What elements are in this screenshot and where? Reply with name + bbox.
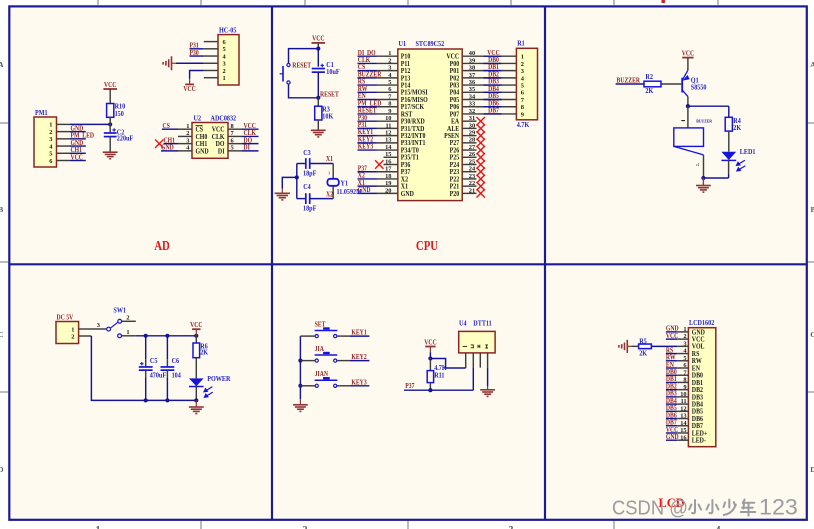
svg-text:CPU: CPU [416, 238, 438, 253]
connector PM1 pin stubs [57, 123, 71, 125]
wire VCC down to junction [429, 347, 431, 353]
svg-text:3: 3 [97, 322, 100, 329]
wire R10 to junction [109, 117, 111, 124]
resistor R10 [107, 104, 114, 118]
wire VCC junction to R6 [195, 336, 197, 343]
svg-text:DI: DI [218, 148, 225, 155]
wire crystal top row X1 [297, 163, 305, 165]
svg-text:17: 17 [385, 166, 392, 173]
svg-text:LCD1602: LCD1602 [689, 320, 714, 327]
U4 internal pin marks [463, 345, 488, 348]
svg-text:18pF: 18pF [303, 205, 316, 212]
junction P37/R11 [428, 388, 432, 392]
power port VCC above reset circuit [312, 42, 326, 44]
svg-text:10K: 10K [322, 113, 334, 120]
svg-text:D: D [810, 465, 814, 474]
junction key rail row2 [298, 359, 302, 363]
no-connect X on U2 pin3 [155, 139, 163, 147]
transistor Q1 S8550 (PNP) [682, 70, 689, 96]
wire bottom rail to LED1 [703, 177, 728, 179]
svg-text:3: 3 [49, 136, 52, 143]
crystal Y1 [332, 164, 334, 179]
wire net CS (U2 pin1) [162, 128, 178, 130]
svg-text:4.7K: 4.7K [434, 365, 447, 372]
svg-text:13: 13 [680, 413, 686, 420]
wire R3 to ground [317, 120, 319, 130]
svg-text:GND: GND [666, 434, 679, 442]
power port VCC above Q1 [682, 57, 693, 59]
svg-text:VCC: VCC [666, 332, 679, 340]
svg-text:ADC0832: ADC0832 [211, 115, 237, 122]
overline on internal CS [196, 125, 203, 127]
DC 5V pin stubs [79, 328, 92, 330]
push button SET [315, 329, 338, 338]
wire R2 to Q1 base [661, 83, 682, 85]
switch SW1 [107, 319, 122, 337]
wire junction to ground [702, 178, 704, 186]
wire net GND (U2 pin4) [161, 150, 178, 152]
power port VCC below HC-05 (down) [185, 83, 194, 85]
svg-text:P30: P30 [190, 49, 199, 57]
connector PM1 [34, 117, 57, 167]
svg-text:5: 5 [388, 79, 391, 86]
svg-text:1: 1 [126, 329, 129, 336]
IC U4 DTT11 [459, 331, 495, 353]
wire R4 branch down [728, 106, 730, 117]
svg-text:KEY3: KEY3 [351, 379, 366, 387]
svg-text:8: 8 [683, 377, 686, 384]
svg-text:13: 13 [385, 137, 391, 144]
SW1 pin2 stub [122, 320, 136, 322]
svg-text:9: 9 [521, 111, 524, 118]
wire key column rail [299, 336, 301, 399]
svg-text:B: B [0, 205, 3, 214]
svg-text:11.0592M: 11.0592M [337, 189, 363, 196]
U2 right pin stubs [228, 128, 242, 130]
junction C5 top [144, 334, 148, 338]
svg-text:2K: 2K [645, 88, 654, 95]
svg-text:JIAN: JIAN [315, 371, 329, 379]
wire button JIA to net KEY2 [337, 360, 350, 362]
svg-text:15: 15 [385, 151, 391, 158]
wire Q1 collector down [687, 97, 689, 107]
svg-text:10uF: 10uF [326, 69, 339, 76]
svg-text:R11: R11 [434, 372, 444, 379]
resistor R4 [725, 117, 732, 131]
junction C6 bottom [165, 398, 169, 402]
buzzer slant lead [674, 146, 704, 155]
svg-text:C5: C5 [150, 358, 158, 365]
wire junction to crystal ground [282, 177, 297, 188]
svg-text:470uF: 470uF [150, 372, 166, 379]
svg-text:HC-05: HC-05 [219, 27, 237, 34]
svg-text:2: 2 [303, 525, 308, 529]
U1 left pin stubs and wires [358, 55, 377, 57]
svg-text:12: 12 [680, 405, 686, 412]
svg-text:JIA: JIA [315, 346, 325, 354]
wire R6 to POWER LED [195, 358, 197, 379]
wire rail to button JIAN [300, 385, 315, 387]
wire HC-05 pin2 to VCC [190, 70, 204, 78]
svg-text:1: 1 [96, 525, 101, 529]
IC U2 ADC0832 [192, 123, 228, 159]
svg-text:P37: P37 [405, 383, 415, 391]
wire net VCC (U2 pin8) [242, 128, 259, 130]
svg-text:RESET: RESET [320, 91, 339, 99]
power port VCC at U4 [425, 346, 435, 348]
wire button JIAN to net KEY3 [337, 385, 350, 387]
wire crystal bottom row X2 [297, 198, 305, 200]
svg-text:VCC: VCC [183, 86, 196, 94]
capacitor C4 [305, 193, 307, 204]
svg-text:2: 2 [126, 314, 129, 321]
svg-text:LED1: LED1 [740, 149, 756, 156]
svg-text:VCC: VCC [312, 35, 325, 43]
wire power rail top [136, 335, 197, 337]
wire BUZZER net to R2 [616, 83, 644, 85]
svg-text:16: 16 [385, 158, 392, 165]
wire PM1 pin6 net VCC [70, 160, 86, 162]
svg-text:SW1: SW1 [113, 307, 126, 314]
SW1 pin1 stub [122, 335, 136, 337]
svg-text:STC89C52: STC89C52 [416, 41, 445, 48]
U4 pin stubs [465, 353, 467, 368]
junction VCC/R6 [194, 334, 198, 338]
power port VCC power rail [192, 328, 200, 330]
junction C5 bottom [144, 398, 148, 402]
svg-text:X1: X1 [326, 156, 333, 164]
ground at R5 (rotated) [619, 340, 627, 353]
buzzer LS1 body [674, 128, 704, 146]
ground below buzzer [696, 186, 711, 193]
junction VCC/R11 [428, 356, 432, 360]
svg-text:14: 14 [680, 420, 687, 427]
resistor R3 [317, 98, 319, 106]
svg-text:C6: C6 [172, 358, 180, 365]
capacitor C5 [145, 336, 147, 360]
svg-text:C: C [810, 330, 814, 339]
junction key rail row3 [298, 384, 302, 388]
svg-text:2: 2 [683, 333, 686, 340]
svg-text:3: 3 [223, 61, 226, 68]
junction crystal left [295, 175, 299, 179]
U1 right unconnected stubs with X marks (pins 31-21) [462, 120, 476, 122]
push button JIA [315, 353, 338, 362]
capacitor C6 [166, 336, 168, 360]
svg-text:C4: C4 [303, 184, 311, 191]
svg-text:1: 1 [186, 123, 189, 130]
junction C6 top [165, 334, 169, 338]
svg-text:AD: AD [154, 238, 170, 253]
svg-text:RESET: RESET [292, 62, 311, 70]
wire VCC junction to U4 pin1 [430, 359, 465, 369]
wire net CLK (U2 pin7) [242, 135, 259, 137]
svg-text:10: 10 [385, 115, 391, 122]
svg-text:2K: 2K [200, 349, 209, 356]
wire net P31 (HC-05 pin5) [190, 48, 204, 50]
wire crystal left branch [296, 164, 298, 199]
buzzer minus sign [681, 120, 685, 122]
svg-text:2: 2 [223, 68, 226, 75]
wire to power ground [195, 400, 197, 407]
svg-text:R2: R2 [645, 74, 653, 81]
svg-text:DB7: DB7 [488, 107, 500, 115]
resistor R6 [193, 343, 200, 358]
capacitor C1 [317, 49, 319, 67]
svg-text:3: 3 [388, 65, 391, 72]
junction at R10/C2 node [108, 122, 112, 126]
svg-text:1: 1 [71, 326, 74, 333]
wire collector node to R4 branch [688, 105, 729, 107]
wire U4 pin4 to ground [487, 368, 489, 387]
svg-text:19: 19 [385, 180, 391, 187]
svg-text:U1: U1 [399, 41, 407, 48]
svg-text:16: 16 [680, 434, 687, 441]
svg-text:104: 104 [172, 372, 182, 379]
svg-text:15: 15 [680, 427, 686, 434]
svg-text:14: 14 [385, 144, 392, 151]
svg-text:KEY1: KEY1 [351, 329, 366, 337]
svg-text:3: 3 [186, 137, 189, 144]
connector DC 5V [56, 322, 79, 344]
svg-text:18pF: 18pF [303, 170, 316, 177]
junction collector node [686, 104, 690, 108]
svg-text:123: 123 [759, 494, 798, 519]
svg-text:C: C [0, 330, 4, 339]
svg-text:2: 2 [388, 57, 391, 64]
svg-text:VCC: VCC [190, 322, 203, 330]
LED LED1 [721, 152, 745, 171]
svg-text:3: 3 [509, 525, 514, 529]
ground power input [189, 407, 204, 414]
svg-text:11: 11 [385, 122, 391, 129]
push button RESET switch [280, 63, 291, 84]
svg-text:R5: R5 [639, 338, 647, 345]
wire rail to button SET [300, 335, 315, 337]
wire buzzer to bottom junction [703, 155, 705, 178]
svg-text:S8550: S8550 [691, 84, 707, 91]
wire collector node to buzzer [687, 106, 689, 128]
svg-text:U2: U2 [194, 115, 202, 122]
svg-text:10: 10 [680, 391, 686, 398]
no-connect X on U1 pin16 [375, 160, 383, 168]
svg-text:DTT11: DTT11 [473, 320, 491, 327]
junction buzzer bottom [701, 176, 705, 180]
svg-text:20: 20 [385, 187, 391, 194]
svg-text:GND: GND [401, 190, 414, 197]
wire bottom return rail [91, 336, 196, 400]
connector LCD1602 [688, 328, 715, 447]
svg-text:1: 1 [521, 54, 524, 61]
svg-text:2K: 2K [733, 125, 742, 132]
IC U1 STC89C52 [398, 49, 462, 201]
svg-text:VCC: VCC [71, 154, 84, 162]
ground below R3 [311, 130, 326, 137]
svg-text:5: 5 [683, 355, 686, 362]
svg-text:2: 2 [49, 129, 52, 136]
svg-text:DI: DI [244, 144, 251, 152]
svg-text:P20: P20 [450, 190, 460, 197]
svg-text:2: 2 [521, 61, 524, 68]
LCD net wires and labels [666, 331, 677, 333]
svg-text:1: 1 [223, 75, 226, 82]
svg-text:A: A [0, 60, 4, 69]
svg-text:DC 5V: DC 5V [57, 314, 74, 322]
resistor R11 [429, 359, 431, 371]
wire net P37 [404, 389, 473, 391]
junction reset bottom / net RESET [316, 96, 320, 100]
svg-text:5: 5 [49, 151, 52, 158]
wire PM1 pin2 net GND [70, 131, 86, 133]
wire net CH1 (U2 pin3) [164, 143, 179, 145]
svg-text:GND: GND [196, 148, 209, 155]
svg-text:5: 5 [231, 145, 234, 152]
wire PM1 pin5 net CH1 [70, 152, 86, 154]
ground crystal circuit [275, 193, 290, 200]
svg-text:1: 1 [49, 122, 52, 129]
junction reset top [316, 47, 320, 51]
LCD pin stubs [677, 331, 688, 333]
svg-text:5: 5 [521, 82, 524, 89]
wire PM1 pin1 to R10/C2 junction [70, 123, 110, 125]
wire R11 to P37 node [429, 383, 431, 391]
wire LED1 to bottom rail [728, 160, 730, 173]
wire R4 to LED1 [728, 131, 730, 152]
wire net P30 (HC-05 pin4) [190, 55, 204, 57]
ground key column [293, 405, 308, 412]
wire U4 pin2 data down to P37 wire [472, 368, 474, 391]
power port VCC above R10 [103, 88, 117, 90]
capacitor C2 [109, 124, 111, 133]
wire PM1 pin4 net GND [70, 145, 86, 147]
wire C2 to ground [109, 137, 111, 153]
capacitor C3 [305, 158, 307, 169]
svg-text:R1: R1 [517, 40, 525, 47]
svg-text:1: 1 [388, 50, 391, 57]
wire PM1 pin3 net PM_LED [70, 138, 86, 140]
svg-text:PM1: PM1 [35, 110, 48, 117]
ground below C2 [103, 152, 118, 159]
svg-text:8: 8 [231, 123, 234, 130]
svg-text:9: 9 [388, 108, 391, 115]
wire button SET to net KEY1 [337, 335, 350, 337]
wire net DI (U2 pin5) [242, 150, 259, 152]
svg-text:2: 2 [186, 130, 189, 137]
wire VCC to resistor R10 [109, 89, 111, 104]
svg-text:BUUZER: BUUZER [696, 118, 713, 123]
svg-text:KEY3: KEY3 [358, 143, 373, 151]
svg-text:c1: c1 [696, 163, 699, 167]
svg-text:9: 9 [683, 384, 686, 391]
svg-text:12: 12 [385, 130, 391, 137]
ground at U4 pin4 [480, 390, 495, 397]
wire to reset button (top) [289, 49, 319, 64]
svg-text:CS: CS [163, 123, 171, 131]
svg-text:2: 2 [71, 333, 74, 340]
svg-text:4: 4 [716, 525, 721, 529]
svg-text:4.7K: 4.7K [517, 122, 530, 129]
resistor network R1 [516, 48, 537, 120]
wire POWER LED to bottom rail [195, 387, 197, 401]
svg-text:220uF: 220uF [117, 135, 133, 142]
svg-text:KEY2: KEY2 [351, 354, 366, 362]
wire reset button bottom [289, 84, 319, 98]
svg-text:A: A [810, 60, 814, 69]
ground at HC-05 pin3 (rotated) [163, 56, 171, 70]
connector HC-05 [218, 35, 239, 85]
svg-text:150: 150 [115, 110, 125, 117]
svg-text:2K: 2K [639, 350, 648, 357]
svg-text:GND: GND [161, 144, 174, 152]
svg-text:8: 8 [521, 104, 524, 111]
svg-text:B: B [810, 205, 814, 214]
svg-text:U4: U4 [459, 320, 467, 327]
svg-text:LED-: LED- [692, 437, 706, 444]
svg-text:VCC: VCC [104, 81, 117, 89]
svg-text:1: 1 [328, 171, 330, 175]
svg-text:C3: C3 [303, 149, 311, 156]
svg-text:VCC: VCC [424, 339, 437, 347]
wire VCC to Q1 emitter [687, 58, 689, 71]
U2 left pin stubs [178, 128, 192, 130]
svg-text:POWER: POWER [207, 376, 230, 383]
resistor R5 [639, 344, 652, 349]
svg-text:3: 3 [683, 340, 686, 347]
svg-text:D: D [0, 465, 4, 474]
svg-text:CSDN @: CSDN @ [612, 498, 688, 520]
svg-text:BUZZER: BUZZER [617, 77, 641, 85]
wire rail to button JIA [300, 360, 315, 362]
svg-text:Y1: Y1 [341, 180, 349, 187]
svg-text:18: 18 [385, 173, 391, 180]
svg-text:VCC: VCC [682, 50, 695, 58]
wire VCC to reset junction [317, 43, 319, 49]
wire HC-05 pin3 to ground [176, 62, 204, 64]
svg-text:8: 8 [388, 101, 391, 108]
wire net DO (U2 pin6) [242, 143, 259, 145]
wires U1 right to resistor network R1 [462, 55, 516, 57]
svg-text:X2: X2 [326, 191, 333, 199]
connector HC-05 pin stubs [204, 41, 218, 43]
svg-text:5: 5 [223, 46, 226, 53]
watermark chinese glyph xiao 1 [689, 500, 755, 516]
stray red mark top edge [662, 0, 665, 3]
resistor R2 [644, 81, 661, 87]
svg-text:SET: SET [315, 321, 326, 329]
svg-text:3: 3 [521, 68, 524, 75]
wire DC5V pin1 to switch [92, 328, 107, 330]
junction LED bottom [194, 398, 198, 402]
LED POWER [189, 378, 213, 397]
svg-text:1: 1 [683, 326, 686, 333]
push button JIAN [315, 378, 338, 387]
svg-text:11: 11 [681, 398, 687, 405]
wire R5 to ground [632, 345, 639, 347]
wire LCD pin3 to R5 [651, 345, 677, 347]
